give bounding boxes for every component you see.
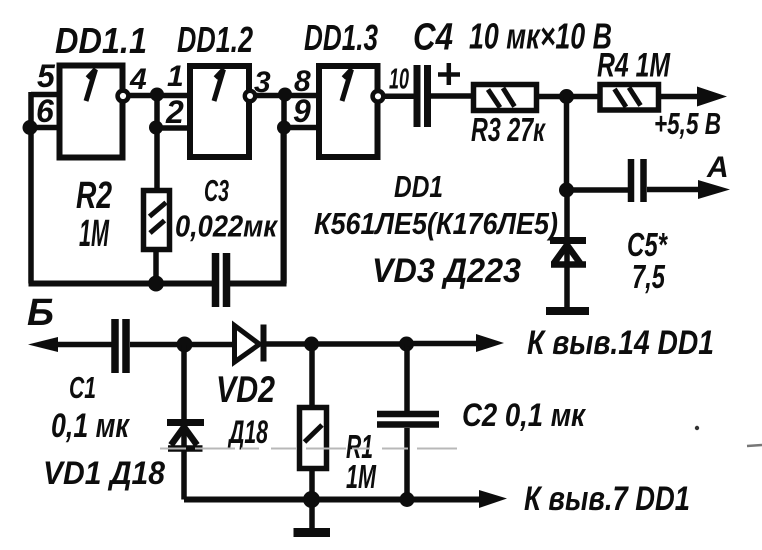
node junction pin2 DD1.2: [149, 121, 163, 135]
svg-text:4: 4: [129, 63, 147, 96]
op-amp U3 : logic gate DD1.3 box: [319, 66, 378, 157]
R3 hatch slash 2: [503, 88, 515, 107]
svg-text:R4 1M: R4 1M: [597, 47, 670, 85]
svg-text:DD1.1: DD1.1: [55, 20, 147, 61]
arrow Б output left: [28, 337, 58, 352]
svg-text:К выв.14 DD1: К выв.14 DD1: [527, 324, 714, 362]
capacitor C3 right plate: [223, 253, 231, 307]
svg-text:C1: C1: [69, 370, 96, 405]
svg-text:10 мк×10 В: 10 мк×10 В: [469, 16, 612, 57]
node junction R1 top: [304, 337, 319, 352]
arrow to pin 14 DD1: [476, 334, 504, 352]
capacitor C2 bottom plate: [377, 421, 439, 428]
node junction pin6 tie: [23, 120, 38, 135]
wire bottom rail of lower section: [184, 497, 483, 503]
svg-text:A: A: [706, 151, 729, 184]
svg-text:DD1.2: DD1.2: [177, 19, 253, 60]
wire R1 bottom stub: [309, 468, 315, 500]
op-amp U1 : logic gate DD1.1 box: [60, 66, 123, 158]
wire input tie DD1.1 left vertical down to bottom rail: [28, 92, 34, 284]
wire R2 bottom to rail: [153, 249, 159, 284]
wire C2 bottom stub: [404, 428, 410, 500]
resistor R1 body: [300, 408, 327, 469]
svg-text:R2: R2: [76, 175, 112, 217]
arrow A output: [698, 180, 730, 199]
arrow to pin 7 DD1: [479, 490, 507, 508]
wire bottom rail right segment with corner up: [230, 127, 284, 284]
svg-text:1M: 1M: [79, 213, 110, 255]
svg-text:9: 9: [293, 93, 311, 129]
svg-text:C3: C3: [204, 173, 229, 208]
capacitor C5 right plate: [640, 159, 647, 202]
svg-text:К561ЛЕ5(К176ЛЕ5): К561ЛЕ5(К176ЛЕ5): [314, 206, 558, 241]
wire C5 to A arrow: [647, 187, 706, 193]
svg-text:2: 2: [165, 94, 184, 130]
diode VD2 triangle: [235, 326, 260, 363]
crease artifact dash right: [747, 445, 762, 446]
artifact speck: [695, 426, 699, 430]
svg-text:6: 6: [36, 93, 54, 129]
diode VD3 triangle: [551, 245, 586, 265]
capacitor C2 top plate: [377, 411, 439, 418]
wire R4 to +5.5V arrow: [661, 94, 704, 100]
inverter bubble output DD1.1: [118, 91, 129, 102]
wire Б arrow to C1: [50, 342, 112, 348]
capacitor C1 left plate: [111, 319, 119, 373]
node junction pin8 DD1.3: [278, 88, 292, 102]
node junction R1 bottom: [303, 491, 320, 508]
svg-text:DD1.3: DD1.3: [304, 17, 378, 58]
R2 hatch slash 1: [150, 203, 167, 217]
C4 polarity plus sign: [438, 63, 460, 85]
svg-text:C2 0,1 мк: C2 0,1 мк: [462, 397, 587, 433]
svg-text:Б: Б: [27, 292, 54, 334]
ground under VD3: [546, 307, 589, 315]
wire R3 to node: [539, 94, 600, 100]
wire input tie DD1.3 vertical down to bottom rail: [281, 93, 287, 284]
inverter bubble output DD1.3: [373, 91, 384, 102]
wire bottom rail left segment: [29, 281, 213, 287]
capacitor C3 left plate: [212, 253, 220, 307]
wire DD1.2 output to DD1.3 input: [255, 93, 319, 99]
svg-text:VD2: VD2: [216, 369, 275, 410]
node junction R3/R4: [559, 89, 574, 104]
svg-text:7,5: 7,5: [632, 258, 665, 295]
gate DD1.1 function label 1: [86, 70, 96, 102]
diode VD3 cathode bar: [550, 237, 586, 244]
diode VD2 cathode bar: [261, 325, 267, 362]
ground under R1: [294, 528, 331, 537]
svg-text:R3 27к: R3 27к: [471, 111, 547, 148]
svg-text:5: 5: [37, 58, 56, 94]
svg-text:VD3 Д223: VD3 Д223: [372, 252, 521, 290]
diode VD1 wire down: [181, 345, 187, 500]
wire node to C5: [567, 187, 629, 193]
diode VD1 cathode bar: [167, 419, 204, 426]
inverter bubble output DD1.2: [245, 91, 255, 101]
wire node to K vyv 14 arrow: [407, 341, 482, 347]
ground stub below R1: [309, 500, 315, 532]
node junction pin1 DD1.2: [150, 88, 164, 102]
R2 hatch slash 2: [150, 221, 165, 234]
gate DD1.3 function label 1: [342, 70, 352, 102]
wire C4 to R3: [431, 93, 473, 99]
wire input tie DD1.2 vertical: [154, 93, 160, 188]
resistor R2 body: [144, 191, 170, 250]
wire pin9 DD1.3: [284, 125, 319, 131]
resistor R4 body: [600, 85, 659, 111]
node junction R2 bottom rail: [148, 276, 164, 292]
svg-text:VD1 Д18: VD1 Д18: [43, 455, 165, 491]
capacitor C4 right plate: [424, 65, 431, 127]
node junction C1/VD1: [177, 337, 193, 353]
R1 hatch slash: [305, 425, 323, 442]
svg-text:DD1: DD1: [394, 169, 443, 204]
arrow +5.5V output: [697, 87, 727, 107]
wire DD1.3 output to C4: [384, 94, 414, 100]
wire pin2 DD1.2: [157, 125, 190, 131]
svg-text:1M: 1M: [346, 458, 377, 495]
R3 hatch slash 1: [488, 90, 500, 108]
svg-text:1: 1: [167, 60, 184, 93]
capacitor C5 left plate: [628, 159, 635, 202]
wire DD1.1 output to DD1.2 input: [129, 93, 190, 99]
wire C2 top stub: [404, 344, 410, 412]
node junction VD3 / C5: [559, 183, 574, 198]
wire VD2 to R1 node: [266, 341, 407, 347]
svg-text:0,022мк: 0,022мк: [175, 209, 278, 244]
diode VD1 triangle: [168, 427, 203, 449]
node junction pin9 DD1.3: [277, 121, 291, 135]
wire R1 top stub: [309, 344, 315, 407]
node junction C2 top: [399, 337, 414, 352]
svg-text:+5,5 В: +5,5 В: [654, 106, 721, 141]
svg-text:Д18: Д18: [227, 414, 268, 450]
svg-text:0,1 мк: 0,1 мк: [51, 407, 130, 445]
wire pin6 DD1.1: [28, 125, 60, 131]
svg-text:К выв.7 DD1: К выв.7 DD1: [524, 480, 690, 518]
resistor R3 body: [474, 85, 537, 111]
wire pin5 DD1.1: [31, 92, 60, 98]
op-amp U2 : logic gate DD1.2 box: [190, 66, 249, 157]
R4 hatch slash 2: [629, 88, 641, 106]
R4 hatch slash 1: [615, 89, 627, 107]
wire C1 to VD2: [130, 342, 233, 348]
diode VD3 wire down: [564, 190, 570, 311]
svg-text:10: 10: [389, 64, 409, 96]
svg-text:C4: C4: [413, 17, 453, 59]
wire node down to VD3 node: [564, 97, 570, 191]
capacitor C4 left plate: [414, 65, 421, 127]
capacitor C1 right plate: [122, 319, 130, 373]
gate DD1.2 function label 1: [214, 70, 224, 102]
node junction C2 bottom: [400, 492, 415, 507]
crease artifact line: [160, 448, 462, 450]
